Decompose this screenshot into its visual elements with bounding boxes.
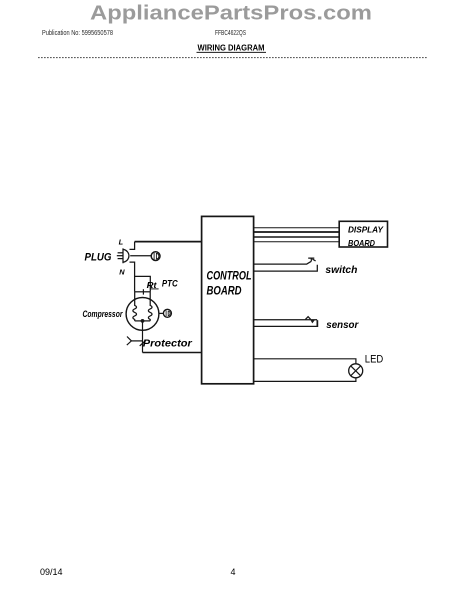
svg-text:Protector: Protector: [143, 338, 193, 349]
compressor winding left: [133, 292, 137, 321]
header dotted rule: [38, 57, 428, 59]
wire LED feed: [253, 359, 356, 364]
wire control->display 1: [253, 227, 339, 229]
plug prong 3: [118, 258, 123, 260]
wire N: plug down to compressor: [130, 262, 135, 292]
PTC Rt underline: [150, 288, 158, 290]
svg-text:Publication No: 5995650578: Publication No: 5995650578: [42, 28, 113, 37]
wire compressor top bridge: [135, 291, 151, 293]
wire PTC branch top: [135, 276, 151, 291]
compressor bottom bar: [135, 320, 151, 322]
svg-text:LED: LED: [365, 354, 384, 366]
sensor caret: [305, 317, 310, 320]
compressor winding right: [148, 292, 152, 321]
protector symbol: [127, 337, 132, 346]
svg-text:N: N: [119, 268, 125, 277]
wire compressor dot down to protector: [142, 321, 144, 353]
plug prong 1: [118, 252, 123, 254]
wire compressor to connector J2: [159, 312, 163, 314]
svg-text:CONTROL: CONTROL: [207, 268, 252, 282]
svg-text:4: 4: [230, 567, 235, 577]
connector J1 (plug cord connector): [151, 252, 160, 261]
svg-text:switch: switch: [325, 265, 357, 276]
wire sensor bottom with end loop: [253, 320, 317, 326]
svg-text:09/14: 09/14: [40, 567, 63, 577]
svg-text:DISPLAY: DISPLAY: [348, 225, 385, 234]
display board box U2: [339, 221, 387, 247]
wire control->display 3: [253, 236, 339, 238]
svg-text:Rt: Rt: [147, 281, 157, 290]
wire control->display 4: [253, 241, 339, 243]
svg-text:sensor: sensor: [326, 320, 359, 331]
svg-text:PLUG: PLUG: [85, 252, 112, 264]
svg-text:PTC: PTC: [162, 278, 178, 288]
connector J2 (compressor connector): [163, 309, 171, 317]
junction dot: [141, 319, 145, 323]
svg-text:L: L: [119, 237, 124, 246]
wire control->display 2: [253, 231, 339, 233]
wire LED return: [253, 378, 356, 382]
svg-text:Compressor: Compressor: [83, 309, 123, 319]
wire plug L riser: [130, 242, 135, 250]
svg-text:AppliancePartsPros.com: AppliancePartsPros.com: [90, 2, 372, 25]
LED lamp DS1: [349, 364, 363, 378]
plug P1 body: [123, 248, 129, 263]
junction tick: [142, 289, 144, 294]
wire protector to control board: [143, 352, 202, 354]
svg-text:FFBC4622QS: FFBC4622QS: [215, 28, 246, 37]
plug prong 2: [117, 255, 123, 257]
wire sensor top: [253, 319, 317, 321]
title underline: [197, 51, 267, 53]
wire line L: plug to control board: [135, 241, 202, 243]
svg-text:WIRING DIAGRAM: WIRING DIAGRAM: [198, 43, 265, 53]
wire plug middle lead to connector: [130, 255, 151, 257]
wire switch bottom with hook: [253, 265, 317, 271]
compressor M1 circle: [126, 298, 159, 331]
svg-text:BOARD: BOARD: [207, 284, 242, 298]
switch blade: [307, 258, 316, 264]
control board box U1: [202, 216, 254, 383]
svg-text:BOARD: BOARD: [348, 239, 375, 248]
sensor arrow head: [310, 320, 315, 324]
wire switch top: [253, 263, 307, 265]
